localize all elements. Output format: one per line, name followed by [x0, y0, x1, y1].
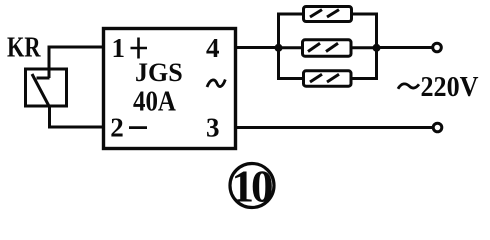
- wire: middle branch left: [279, 46, 304, 49]
- svg-text:JGS: JGS: [135, 58, 183, 87]
- figure number 10 (circled): [230, 162, 274, 212]
- wire: top branch left: [277, 13, 303, 16]
- svg-text:KR: KR: [7, 32, 41, 63]
- node B (right junction): [373, 44, 381, 52]
- svg-text:10: 10: [232, 162, 273, 212]
- wire: bottom branch right: [351, 77, 378, 80]
- resistor R3 (bottom heating element): [304, 71, 352, 86]
- op-amp U1 (JGS 40A solid-state relay box): [104, 29, 236, 149]
- wire: top branch right: [352, 13, 379, 16]
- svg-text:1: 1: [112, 33, 126, 63]
- wire: node B to top terminal: [377, 46, 433, 49]
- contact KR (thermal relay NC contact): [26, 46, 67, 109]
- svg-text:3: 3: [206, 113, 220, 143]
- svg-text:2: 2: [110, 113, 124, 143]
- resistor R1 (top heating element): [304, 7, 352, 22]
- svg-text:40A: 40A: [133, 85, 176, 117]
- polarity +: [131, 38, 148, 59]
- wire: pin 4 to node A: [236, 46, 279, 49]
- label 220V: [421, 70, 479, 103]
- polarity -: [129, 126, 147, 129]
- svg-text:4: 4: [206, 33, 220, 63]
- wire: KR bottom to pin 2: [50, 106, 104, 127]
- wire: middle branch right: [351, 46, 377, 49]
- wire: KR top to pin 1: [49, 46, 104, 49]
- value 40A: [133, 85, 176, 117]
- label KR: [7, 32, 41, 63]
- wire: left branch verticals: [277, 14, 280, 79]
- svg-text:220V: 220V: [421, 70, 479, 103]
- node A (left junction): [275, 44, 283, 52]
- wire: bottom branch left: [277, 77, 303, 80]
- wire: right branch vertical: [375, 14, 378, 79]
- terminal T1 (top): [433, 43, 442, 52]
- terminal T2 (bottom): [433, 123, 442, 132]
- ac symbol ~ (supply): [398, 84, 419, 89]
- resistor R2 (middle heating element): [303, 40, 352, 56]
- ac symbol ~: [207, 80, 225, 88]
- wire: pin 3 to bottom terminal: [236, 126, 433, 129]
